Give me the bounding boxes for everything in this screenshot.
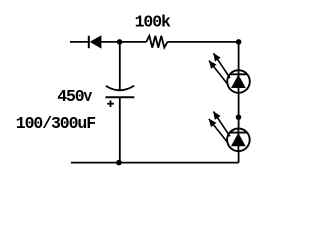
diode D1 (triangle, pointing left) [90,35,102,48]
diode D1 (cathode bar) [88,36,90,48]
wire: diode to resistor [101,41,146,43]
wire: top AC input to diode [70,41,89,43]
LED1 cathode bar [230,73,247,75]
wire: right rail [238,42,240,163]
LED1 lead through circle [238,70,240,93]
node: junction dot bottom cap branch [116,160,122,166]
LED1 light arrow B [209,61,228,84]
node: junction dot top-right corner [236,39,242,45]
wire: capacitor branch from top wire down to cap [119,42,121,90]
wire: resistor to top-right corner [167,41,238,43]
LED2 light arrow B [209,119,228,142]
svg-text:450V: 450V [57,87,92,106]
wire: capacitor to bottom rail [119,97,121,162]
svg-text:100/300uF: 100/300uF [16,114,95,133]
capacitor C1 straight (positive) plate [106,96,135,98]
node: junction dot between LEDs [236,114,242,120]
LED1 circle [227,70,250,93]
LED2 circle [227,129,250,152]
LED2 triangle (pointing up) [231,133,246,146]
LED2 cathode bar [230,132,247,134]
LED2 light arrow A [213,112,230,137]
svg-text:100k: 100k [135,12,171,31]
LED1 triangle (pointing up) [231,75,246,88]
capacitor C1 curved (negative) plate [106,86,134,91]
resistor 100k (zigzag) [146,36,167,48]
wire: bottom rail [71,162,239,164]
LED2 lead through circle [237,128,239,152]
LED1 light arrow A [214,53,231,78]
capacitor plus sign [107,100,114,107]
node: junction dot at diode/cap branch [117,39,123,45]
